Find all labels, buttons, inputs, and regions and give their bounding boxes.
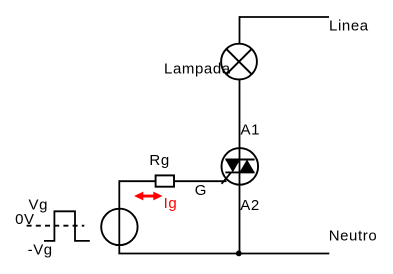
svg-text:A1: A1 [241, 122, 261, 139]
waveform: 0V dashed axis [27, 225, 85, 227]
svg-text:G: G [195, 182, 207, 199]
svg-text:0V: 0V [15, 211, 35, 228]
svg-text:Lampada: Lampada [164, 60, 231, 77]
junction dot [236, 251, 242, 257]
svg-text:A2: A2 [240, 197, 260, 214]
wire: Neutro horizontal [118, 253, 329, 255]
svg-text:Ig: Ig [164, 195, 178, 212]
current arrow Ig (red double arrow) [134, 192, 162, 201]
svg-text:Linea: Linea [329, 17, 369, 34]
resistor Rg [156, 175, 174, 186]
waveform: Vg pulse [44, 211, 90, 241]
source Vg (circle) [101, 209, 137, 245]
wire: Rg to gate [174, 180, 227, 182]
wire: source vertical [118, 180, 120, 253]
wire: lamp to triac to neutral (main vertical) [239, 79, 241, 253]
wire: top vertical to lamp [239, 16, 241, 44]
lamp (Lampada) [221, 44, 257, 80]
svg-text:Rg: Rg [149, 152, 169, 169]
wire: Linea feed horizontal [240, 16, 330, 18]
svg-text:Neutro: Neutro [329, 228, 378, 245]
triac U1 [222, 148, 259, 185]
gate lead diagonal [222, 172, 232, 184]
gate wire: source/Rg to triac gate [119, 180, 155, 182]
svg-text:-Vg: -Vg [28, 241, 53, 258]
